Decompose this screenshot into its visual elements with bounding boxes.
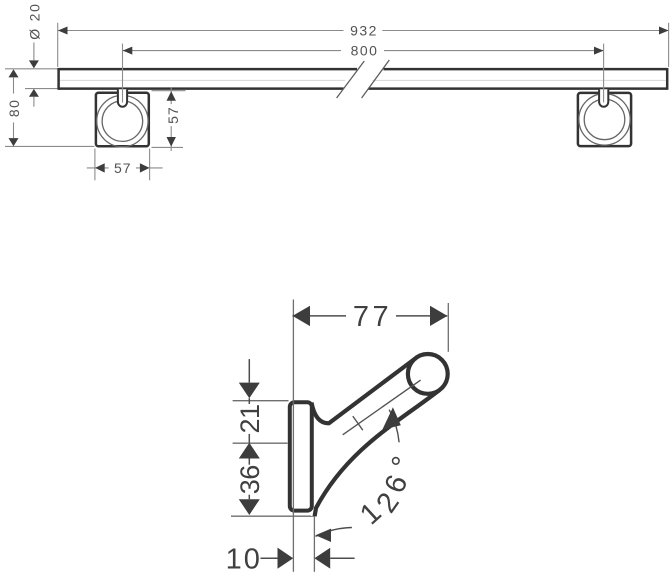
arm upper outline	[312, 358, 416, 423]
right square plate	[578, 93, 631, 146]
bar inner faint line	[60, 79, 666, 81]
right stem	[599, 89, 608, 107]
right inner circle	[584, 99, 625, 140]
bar left end	[57, 68, 60, 90]
ext line 21/36 boundary	[233, 442, 288, 444]
ext line square-bottom left	[5, 145, 95, 147]
ext 800 right (through bar and stem)	[603, 44, 605, 103]
ext 77 right (to circle)	[447, 303, 449, 352]
dim 57 vertical: ext lines right of square	[152, 90, 186, 92]
angle arc lower segment	[316, 528, 352, 537]
ext 800 left (through bar and stem)	[122, 44, 124, 103]
ext line plate-top left	[233, 400, 289, 402]
dim 80	[9, 69, 19, 77]
bar right end	[666, 68, 669, 90]
text 800	[342, 44, 384, 58]
angle arc upper segment	[389, 410, 399, 443]
bar bottom edge	[59, 87, 668, 90]
svg-text:800: 800	[351, 43, 379, 59]
text 57 horizontal	[109, 160, 136, 175]
svg-text:77: 77	[353, 301, 392, 333]
wall line	[292, 300, 294, 572]
wall plate	[290, 402, 312, 510]
angle arrow at arm	[382, 407, 401, 430]
svg-text:932: 932	[350, 23, 378, 39]
text 21 (rotated)	[235, 404, 265, 434]
ext 932 left	[57, 23, 59, 67]
dim 57 horizontal: ext lines below square	[94, 149, 96, 181]
left square plate	[96, 93, 149, 146]
dim 10	[261, 557, 278, 559]
arm fill	[311, 355, 447, 517]
svg-text:Ø 20: Ø 20	[26, 2, 42, 40]
dim 57 horizontal line + arrows	[87, 167, 109, 169]
dim 800	[123, 50, 341, 52]
ext line bar-top left	[5, 68, 58, 70]
text 36 (rotated)	[235, 465, 265, 495]
right outer circle	[579, 94, 630, 145]
arm lower outline	[315, 390, 440, 517]
svg-text:57: 57	[114, 160, 132, 176]
dim 57 vertical line + arrows	[170, 88, 172, 151]
bar body	[59, 69, 668, 89]
ext line bar-bottom left	[25, 88, 58, 90]
break slash 1	[337, 61, 365, 98]
angle arrow at wall	[316, 529, 332, 542]
axis tick	[353, 416, 363, 430]
arm axis line	[343, 380, 421, 435]
ext line 10 right	[313, 516, 315, 572]
text dia 20 (rotated)	[26, 2, 42, 40]
dim dia20	[33, 43, 35, 61]
left stem	[118, 89, 127, 107]
left outer circle	[97, 95, 148, 146]
dim 932	[58, 30, 343, 32]
svg-text:80: 80	[6, 99, 22, 118]
text 80 (rotated)	[6, 96, 22, 120]
break slash 2	[362, 60, 390, 98]
bar top edge	[59, 68, 668, 71]
left inner circle	[102, 101, 143, 142]
svg-text:57: 57	[165, 106, 181, 124]
holder circle	[408, 354, 448, 394]
ext line 36 bottom / foot	[231, 515, 315, 517]
dim 21/36 vertical line	[248, 359, 250, 383]
text 57 vertical (rotated)	[165, 104, 181, 126]
text 932	[344, 24, 382, 38]
ext 932 right	[668, 23, 670, 67]
svg-text:21: 21	[235, 404, 265, 433]
svg-text:10: 10	[226, 544, 262, 576]
text 126deg (rotated glyphs)	[354, 497, 387, 532]
dim 77	[293, 315, 347, 317]
svg-text:36: 36	[235, 465, 265, 494]
